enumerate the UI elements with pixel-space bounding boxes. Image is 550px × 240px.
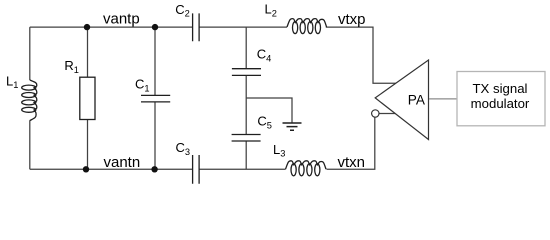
wire C4/C5 branch [245, 27, 247, 169]
wire top rail vantp [30, 27, 396, 83]
capacitor C2 [193, 13, 200, 41]
wire PA output to modulator (gray) [429, 98, 457, 100]
wire PA inverted input stub [379, 113, 395, 115]
capacitor C1 [141, 95, 170, 102]
wire bottom rail vantn [30, 117, 375, 169]
resistor R1 [80, 77, 95, 119]
capacitor C3 [193, 155, 200, 184]
node vantn junction dot at C1 [151, 166, 157, 172]
svg-text:vtxn: vtxn [338, 154, 366, 171]
ground [283, 123, 302, 130]
wire left vertical L1 branch [29, 27, 31, 169]
svg-text:TX signal: TX signal [473, 81, 528, 96]
svg-text:modulator: modulator [471, 96, 530, 111]
wire C1 branch [154, 27, 156, 169]
wire ground branch [246, 98, 292, 123]
op-amp PA triangle [375, 60, 428, 140]
node vantp junction dot at R1 [84, 24, 90, 30]
svg-text:vantp: vantp [103, 11, 140, 28]
wire R1 branch [87, 27, 89, 169]
node vantp junction dot at C1 [152, 24, 158, 30]
inductor L2 [287, 19, 327, 34]
svg-text:vtxp: vtxp [338, 11, 366, 28]
capacitor C4 [232, 69, 261, 76]
svg-text:PA: PA [408, 93, 426, 108]
node vantn junction dot at R1 [83, 166, 89, 172]
capacitor C5 [232, 135, 261, 142]
svg-text:vantn: vantn [104, 154, 141, 171]
inductor L3 [286, 161, 327, 176]
inductor L1 [22, 80, 37, 121]
PA inversion bubble [372, 110, 379, 117]
block TX signal modulator [457, 72, 545, 126]
